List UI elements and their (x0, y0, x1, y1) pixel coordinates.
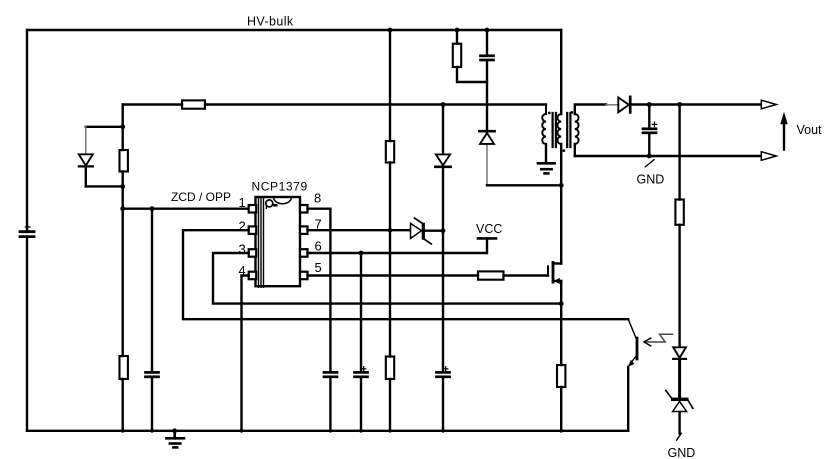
node dot zener junction (441, 228, 446, 233)
transformer T1 primary line top (560, 30, 562, 114)
svg-text:5: 5 (315, 260, 322, 275)
diode D5 opto LED (673, 347, 686, 359)
wire diode branch left upper (85, 127, 87, 155)
wire HV-bulk top rail (27, 29, 561, 31)
pin number labels (239, 190, 322, 277)
arrow output minus (761, 152, 776, 161)
svg-text:6: 6 (315, 238, 322, 253)
svg-text:HV-bulk: HV-bulk (247, 15, 294, 29)
wire diode branch left lower (85, 166, 87, 186)
capacitor C3 (324, 372, 337, 376)
IC U1 NCP1379 (256, 197, 301, 287)
svg-text:ZCD / OPP: ZCD / OPP (171, 190, 231, 204)
resistor R6 (386, 357, 394, 380)
wire aux winding line (123, 103, 546, 105)
wire C-chain vertical x152 (151, 209, 153, 431)
svg-text:8: 8 (314, 190, 321, 205)
node dot clamp R top (455, 28, 460, 33)
wire output top rail (631, 103, 761, 105)
zener Z2 (666, 390, 693, 411)
transformer polarity dots (548, 111, 573, 152)
svg-text:1: 1 (239, 195, 246, 210)
wire output bottom rail (575, 155, 762, 157)
svg-text:Vout: Vout (797, 123, 823, 137)
wire feedback chain x679.6 (678, 105, 680, 434)
capacitor C6 clamp (481, 56, 494, 60)
svg-text:VCC: VCC (476, 222, 502, 236)
resistor R4 gate (478, 271, 504, 279)
wire LED to zener bold (678, 359, 681, 397)
wire pin5 DRV (308, 274, 549, 276)
wire diode anode lead (606, 104, 618, 106)
node dot clamp C top (485, 28, 490, 33)
wire startup chain x390 (389, 30, 391, 431)
node dots bottom rail (121, 428, 563, 433)
diode D2 (435, 154, 450, 166)
capacitor C4 polarized (355, 367, 368, 377)
wire source down (560, 281, 562, 431)
resistor R7 clamp (453, 44, 461, 67)
node dot output cap bottom (647, 154, 652, 159)
wire diode branch top (86, 126, 123, 128)
pin squares U1 (249, 205, 308, 279)
wire pin7 (308, 229, 411, 231)
wire clamp diode anode lead (486, 144, 488, 185)
wire left rail lower (26, 239, 28, 431)
resistor R9 feedback (675, 200, 683, 225)
node dot pin6 branch (359, 251, 364, 256)
node dots output top (647, 102, 682, 107)
resistor R1 (182, 100, 205, 108)
wire VCC diode chain x443 (442, 105, 444, 431)
diode D4 output (618, 97, 630, 113)
wire pin3 CS (213, 253, 561, 304)
optocoupler Q2 phototransistor (628, 319, 637, 431)
svg-text:GND: GND (668, 446, 696, 459)
svg-text:NCP1379: NCP1379 (252, 180, 308, 194)
node dot aux tap (441, 102, 446, 107)
resistor R3 lower (120, 356, 128, 379)
zener Z1 (411, 218, 432, 244)
wire pin8 (308, 209, 331, 431)
node dot clamp-drain (559, 183, 564, 188)
capacitor C5 polarized (437, 367, 450, 377)
GND tick feedback (677, 433, 682, 440)
capacitor C2 (146, 372, 159, 376)
wire clamp return (487, 184, 561, 186)
clamp resistor branch x457 (457, 30, 487, 82)
transformer secondary bottom lead (574, 144, 576, 156)
ground symbol transformer (538, 163, 555, 173)
wire VCC cap branch x362 (360, 253, 362, 431)
wire pin4 GND (242, 276, 249, 431)
arrow output plus (761, 100, 776, 109)
resistor R2 (120, 150, 128, 172)
GND tick output (645, 160, 654, 167)
wire zener to x443 (425, 229, 443, 231)
wire primary to drain (560, 144, 562, 264)
wire diode branch bottom (86, 185, 123, 187)
ground symbol main (166, 431, 184, 448)
VCC power symbol (478, 237, 496, 240)
transformer core lines (553, 113, 571, 147)
svg-text:3: 3 (239, 242, 246, 257)
transformer T1 windings (542, 105, 578, 145)
wire pin1 ZCD line (123, 207, 249, 209)
node junction dots left chain (120, 124, 125, 188)
diode D3 clamp (479, 131, 494, 144)
opto light arrow (644, 334, 673, 346)
diode D1 (79, 154, 93, 166)
capacitor C7 output (648, 105, 650, 157)
node dot CS at MOSFET source (559, 301, 564, 306)
wire pin6 VCC (308, 239, 488, 253)
arrow Vout (780, 112, 787, 150)
wire pin2 FB (183, 230, 628, 319)
transformer aux ground wire (545, 144, 547, 163)
node dot startup top (388, 28, 393, 33)
node dot startup pin7 (388, 228, 393, 233)
resistor R5 (386, 141, 394, 163)
wire ZCD chain vertical (121, 105, 123, 431)
node junction dots pin1 wire (120, 206, 154, 211)
resistor R8 sense (557, 365, 565, 387)
clamp capacitor branch x487 (486, 30, 488, 130)
capacitor C1 bulk (20, 225, 34, 237)
MOSFET Q1 (548, 262, 561, 284)
wire bottom ground rail (27, 430, 628, 432)
wire left rail upper (26, 30, 28, 230)
transformer secondary top lead (575, 105, 606, 115)
svg-text:GND: GND (637, 172, 665, 186)
